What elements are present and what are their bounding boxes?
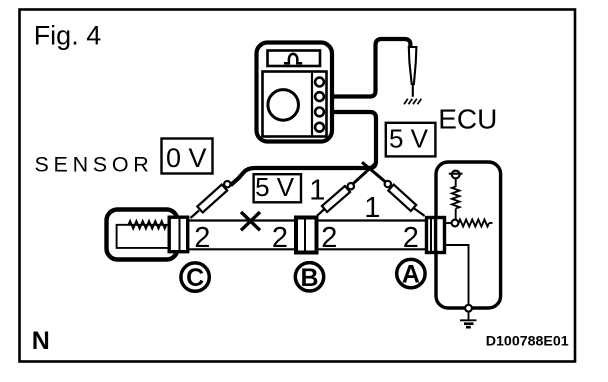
multimeter U1 body: [257, 43, 333, 142]
wire meter terminal2 to ground probe: [330, 39, 410, 97]
value box 5 V (center): [254, 172, 301, 203]
label SENSOR: [35, 152, 154, 176]
pin label 1 (right): [364, 192, 380, 224]
sensor body: [107, 210, 178, 260]
ground symbol below ECU: [460, 320, 477, 327]
connector C: [169, 217, 188, 252]
svg-text:ECU: ECU: [438, 104, 497, 135]
harness wire 1 (top): [179, 219, 435, 221]
pin label 2 at A: [403, 222, 419, 254]
label ECU: [438, 104, 497, 135]
pin label 2 at C: [194, 222, 210, 254]
multimeter terminal 3: [315, 108, 324, 117]
svg-text:A: A: [402, 261, 420, 289]
connector A: [427, 216, 445, 254]
ECU ground node on box edge: [465, 305, 472, 320]
test probe at connector C: [191, 181, 231, 218]
node A (circled): [397, 259, 425, 288]
svg-text:2: 2: [194, 222, 210, 254]
svg-text:5 V: 5 V: [255, 172, 295, 202]
svg-text:D100788E01: D100788E01: [486, 334, 569, 350]
ECU internal resistor (horizontal): [459, 220, 493, 227]
label Fig. 4: [34, 20, 102, 50]
svg-text:SENSOR: SENSOR: [35, 152, 154, 176]
multimeter terminal 2: [315, 92, 324, 101]
harness wire 2 (bottom): [179, 248, 435, 250]
ground probe (vertical): [409, 47, 417, 97]
node C (circled): [181, 263, 209, 292]
value box 0 V: [162, 139, 213, 174]
svg-text:2: 2: [272, 222, 288, 254]
break mark X on wire C-B: [241, 212, 260, 230]
svg-text:5 V: 5 V: [389, 124, 429, 154]
svg-text:Fig. 4: Fig. 4: [34, 20, 102, 50]
svg-text:0 V: 0 V: [166, 143, 207, 173]
wire meter terminal3 down to junction: [330, 112, 376, 169]
sensor resistor loop: [117, 221, 168, 248]
pin label 2 right of B: [321, 222, 337, 254]
value box 5 V (right): [386, 123, 436, 157]
wire junction to probe B: [353, 162, 377, 184]
multimeter ohm symbol: [284, 54, 302, 63]
multimeter dial: [268, 90, 299, 121]
multimeter terminal 1: [315, 78, 324, 87]
multimeter terminal 4: [315, 123, 324, 132]
test probe at connector B: [317, 183, 354, 216]
test probe at connector A: [385, 181, 425, 216]
svg-text:1: 1: [364, 192, 380, 224]
svg-text:1: 1: [309, 175, 325, 207]
label N: [32, 327, 50, 355]
multimeter panel: [263, 72, 327, 137]
pin label 2 left of B: [272, 222, 288, 254]
node B (circled): [295, 263, 323, 292]
connector B: [296, 217, 317, 253]
svg-text:C: C: [186, 264, 204, 292]
ground hatch at probe tip: [404, 99, 421, 104]
svg-text:B: B: [300, 264, 318, 292]
ECU box: [436, 162, 501, 308]
multimeter display window: [268, 51, 321, 67]
svg-text:2: 2: [403, 222, 419, 254]
svg-text:N: N: [32, 327, 50, 355]
wire junction to probe C (horizontal run): [231, 168, 374, 185]
ECU pull-up resistor (vertical): [452, 187, 460, 221]
svg-text:2: 2: [321, 222, 337, 254]
wire junction to probe A: [362, 162, 385, 181]
ECU node (pin 1 net): [446, 220, 458, 227]
ECU ground wire from pin 2: [446, 245, 469, 305]
ECU supply terminal: [449, 171, 463, 187]
pin label 1 (left): [309, 175, 325, 207]
label D100788E01: [486, 334, 569, 350]
